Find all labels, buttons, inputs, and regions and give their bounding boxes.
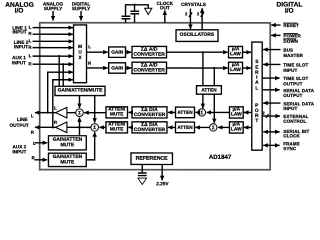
svg-text:REFERENCE: REFERENCE [136,156,169,162]
svg-text:GAIN/ATTEN: GAIN/ATTEN [53,137,83,143]
svg-text:INPUT: INPUT [283,106,297,111]
svg-text:CONVERTER: CONVERTER [134,52,166,58]
svg-text:POWER: POWER [283,33,301,38]
svg-text:OSCILLATORS: OSCILLATORS [180,32,215,38]
svg-text:OUTPUT: OUTPUT [283,81,302,86]
svg-text:INPUT: INPUT [12,60,26,65]
svg-text:R: R [28,31,32,36]
svg-text:RESET: RESET [283,23,299,28]
svg-text:LAW: LAW [231,127,242,133]
svg-text:SYNC: SYNC [283,146,297,151]
svg-text:2: 2 [262,110,265,115]
svg-text:L: L [29,25,32,30]
svg-text:Σ: Σ [212,125,215,130]
svg-text:Σ: Σ [78,110,81,115]
svg-text:CRYSTALS: CRYSTALS [181,2,206,7]
svg-text:SUPPLY: SUPPLY [72,6,91,11]
svg-text:MASTER: MASTER [283,53,303,58]
svg-text:LAW: LAW [231,112,242,118]
svg-text:LAW: LAW [230,67,241,73]
svg-text:ATTEN: ATTEN [177,125,193,130]
svg-text:O: O [255,108,259,114]
svg-text:DOWN: DOWN [283,39,298,44]
svg-text:GAIN: GAIN [111,65,123,70]
svg-text:INPUT: INPUT [283,68,297,73]
svg-text:CONVERTER: CONVERTER [134,67,166,73]
svg-text:L: L [88,44,91,49]
svg-text:R: R [28,45,32,50]
svg-text:LINE: LINE [17,117,28,122]
svg-text:CLOCK: CLOCK [283,133,300,138]
svg-text:R: R [54,120,58,125]
svg-text:MUTE: MUTE [110,111,124,117]
svg-text:INPUT: INPUT [14,44,28,49]
svg-text:GAIN: GAIN [111,50,123,55]
svg-text:2: 2 [185,11,188,16]
svg-text:INPUT: INPUT [12,149,26,154]
svg-text:INPUT: INPUT [12,30,26,35]
svg-text:BUS: BUS [283,48,293,53]
svg-text:GAIN/ATTEN/MUTE: GAIN/ATTEN/MUTE [58,87,103,93]
svg-text:CONVERTER: CONVERTER [134,127,166,133]
svg-text:CONTROL: CONTROL [283,119,306,124]
svg-text:ATTEN: ATTEN [177,110,193,115]
svg-text:2.25V: 2.25V [156,181,169,186]
svg-text:M: M [78,44,82,49]
svg-text:R: R [88,61,92,66]
svg-text:OUTPUT: OUTPUT [283,93,302,98]
svg-text:2: 2 [197,11,200,16]
svg-text:ATTEN: ATTEN [201,88,217,93]
svg-text:OUTPUT: OUTPUT [10,123,29,128]
svg-text:R: R [31,130,35,135]
svg-text:L: L [29,53,32,58]
svg-text:OUT: OUT [160,5,170,10]
svg-text:GAIN/ATTEN: GAIN/ATTEN [53,154,83,160]
svg-text:L: L [255,85,258,91]
svg-text:A: A [255,80,259,86]
svg-text:I/O: I/O [15,8,24,15]
svg-text:I/O: I/O [285,8,294,15]
svg-text:Σ: Σ [93,125,96,130]
svg-text:L: L [31,113,34,118]
svg-text:MUTE: MUTE [60,142,75,148]
svg-text:MUTE: MUTE [110,126,124,132]
svg-text:R: R [28,61,32,66]
svg-text:T: T [255,118,258,124]
svg-text:TIME SLOT: TIME SLOT [283,62,308,67]
svg-text:SUPPLY: SUPPLY [44,6,63,11]
svg-text:CONVERTER: CONVERTER [134,112,166,118]
svg-text:Σ: Σ [200,110,203,115]
svg-text:MUTE: MUTE [60,160,75,166]
svg-text:LAW: LAW [230,51,241,57]
svg-text:L: L [54,105,57,110]
svg-text:TIME SLOT: TIME SLOT [283,76,308,81]
svg-text:AD1847: AD1847 [209,154,232,161]
svg-text:L: L [29,38,32,43]
